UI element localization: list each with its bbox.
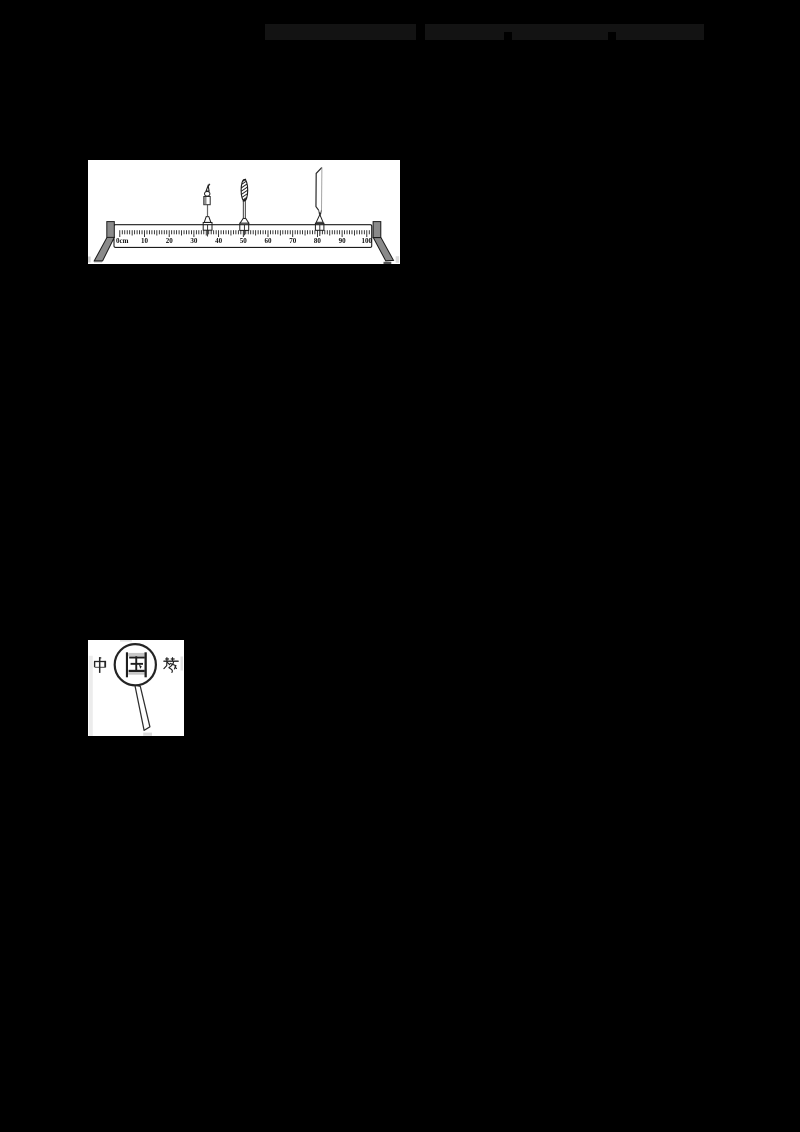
svg-text:30: 30 (190, 237, 198, 245)
lens tip marks (243, 179, 246, 202)
magnifier lens circle (115, 644, 156, 685)
svg-text:70: 70 (289, 237, 297, 245)
screen clamp (319, 210, 322, 215)
svg-text:50: 50 (240, 237, 248, 245)
svg-text:90: 90 (339, 237, 347, 245)
right support post (373, 222, 381, 238)
svg-text:80: 80 (314, 237, 322, 245)
title highlight strip 2 (425, 24, 704, 40)
screen holder base (80cm) (315, 223, 324, 230)
faint scan band right of third character (181, 657, 184, 671)
white figure background (88, 160, 400, 264)
magnifier handle (135, 685, 150, 730)
white figure background (88, 640, 184, 736)
character meng (梦) (164, 658, 178, 673)
svg-text:10: 10 (141, 237, 149, 245)
candle holder cone (204, 217, 211, 223)
lens holder base (50cm) (240, 223, 249, 230)
svg-text:100: 100 (362, 237, 373, 245)
title highlight strip 1 (265, 24, 417, 40)
ruler tick marks (120, 230, 369, 237)
ruler numbers (116, 237, 373, 245)
faint light strip right of right leg (396, 256, 399, 263)
shadow under left leg tip (94, 261, 102, 263)
figure: magnifier over character (China dream) (88, 640, 184, 736)
candle holder base (35cm) (203, 223, 212, 231)
faint scan mark bottom-left corner (88, 257, 91, 263)
figure: optical bench experiment (88, 160, 400, 264)
character zhong (中) (94, 657, 106, 673)
svg-text:60: 60 (265, 237, 273, 245)
magnified character guo (国) (126, 652, 147, 677)
candle stem (207, 205, 209, 217)
candle position marker tick (207, 225, 209, 237)
left support leg (94, 237, 114, 261)
svg-text:20: 20 (166, 237, 174, 245)
screen holder cone (316, 216, 324, 224)
candle body (204, 197, 210, 205)
faint scan band bottom center (143, 733, 152, 736)
faint scan band top (120, 640, 132, 642)
left support post (107, 222, 115, 238)
candle body shading (204, 197, 206, 204)
right support leg (373, 238, 393, 261)
shadow under right leg tip (384, 262, 392, 264)
title strip notch (comma gap) 2 (608, 32, 616, 40)
candle wick holder circle (205, 191, 210, 196)
candle flame (208, 184, 210, 187)
lens stem (243, 201, 245, 219)
faint scan band left edge (89, 656, 93, 736)
svg-text:0cm: 0cm (116, 237, 129, 245)
svg-text:40: 40 (215, 237, 223, 245)
lens holder cone (240, 218, 249, 223)
screen position marker tick (319, 225, 321, 236)
title strip notch (comma gap) 1 (504, 32, 512, 40)
ruler body (114, 225, 372, 248)
lens position marker tick (243, 225, 245, 235)
light screen board (316, 167, 322, 210)
